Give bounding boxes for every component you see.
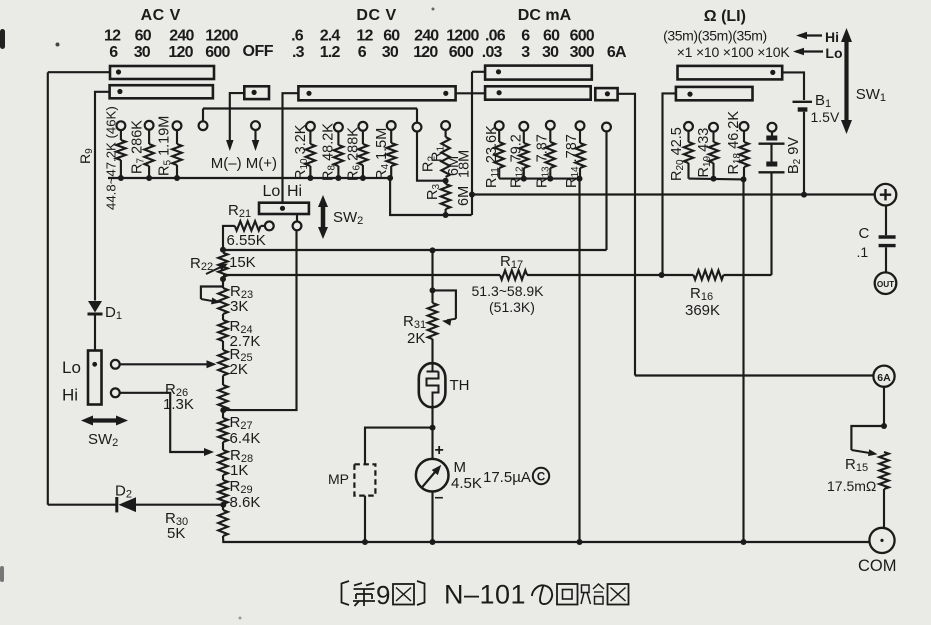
resistor R15 [879,452,888,528]
DC mA slider bar lower [485,86,591,99]
Lo-Hi slider box [88,351,102,405]
svg-text:15K: 15K [229,254,256,271]
DC V section title [356,7,396,24]
R15 trimmer tap [851,426,884,458]
resistor R7 [144,130,153,178]
R9 value 44.8-47.2K (46K) [104,106,119,210]
battery B2 link [770,144,772,162]
terminal OUT [875,272,897,294]
MP dashed box [354,464,375,495]
node R31 top [430,287,436,293]
svg-text:Lo: Lo [825,45,842,61]
R22 value [229,254,256,271]
wire DC V bar to SW2 slider [283,93,299,203]
svg-text:.3: .3 [292,44,305,61]
R15 designator [845,456,868,474]
svg-text:17.5µA: 17.5µA [483,469,531,486]
Lo label left slider [62,358,81,377]
node R18 common [741,539,747,545]
node B1 plus rail [801,192,807,198]
resistor R26 [218,385,227,410]
node R26 bottom [220,407,226,413]
R15 value [827,478,876,494]
svg-text:2.4: 2.4 [320,27,341,44]
resistor R6 [358,131,367,178]
mA contact 600 [576,121,585,130]
wire D2 to R29 node [136,504,223,506]
SW2 Hi contact stem [296,214,298,222]
node R1 bottom junction [443,178,449,184]
ohm contact x1 [684,122,693,131]
R24 value [230,333,261,350]
R20 label [669,127,686,181]
svg-text:3K: 3K [230,298,248,315]
svg-text:1.5V: 1.5V [811,109,840,125]
node R8 bottom [335,175,341,181]
wire R29 to R30 [222,504,224,510]
SW2 slider box [259,203,309,214]
wire R22 to R23 [222,277,224,288]
Hi label above SW2 box [287,183,302,200]
wire R25 to R26 [222,376,224,386]
D1 designator [105,304,122,322]
labels M(-) M(+) [211,155,277,172]
C designator [859,225,870,242]
resistor R13 [546,130,555,179]
wire R9 feed from AC lower bar [95,92,110,301]
SW2 lower double arrow [81,416,128,426]
wire DC mA upper bar feed [472,71,485,73]
R3 value 6M [456,186,472,206]
svg-text:3: 3 [521,44,530,61]
wire meter node to MP [365,428,433,465]
AC contact 1200V [199,121,208,130]
meter minus polarity [435,489,444,506]
svg-text:6: 6 [109,44,118,61]
R29 value [230,494,261,511]
resistor R16 [694,270,724,279]
ohm contact x100 [740,122,749,131]
node R14 bottom [577,176,583,182]
R18 label [726,111,743,175]
node R31 top feed [430,247,436,253]
ohm contact battery [768,123,777,132]
wire B1 to plus rail [803,112,805,195]
svg-text:51.3~58.9K: 51.3~58.9K [472,283,545,299]
wire capacitor to OUT [885,247,887,272]
svg-text:600: 600 [449,44,474,61]
mA contact .06 [495,121,504,130]
R22 designator [190,255,213,273]
svg-text:Lo: Lo [263,183,281,200]
wire R22 node to R17 [223,274,500,276]
node R19 bottom [711,176,717,182]
AC V slider bar upper [110,66,214,79]
node MP bottom [362,539,368,545]
battery B2 cell1 positive plate [759,142,785,144]
meter M body [416,459,449,492]
MP label [328,471,349,487]
wire shunt rail down to common [578,179,580,542]
svg-text:+: + [435,442,444,459]
R16 value [685,302,720,319]
svg-text:6A: 6A [607,44,627,61]
wire OFF box to M(-) [230,93,245,142]
resistor R10 [306,131,315,178]
diode D2 [117,497,136,512]
battery B2 cell2 positive plate [759,171,785,173]
svg-text:B2 9V: B2 9V [786,137,803,174]
wire meter to common rail [431,492,433,543]
wire R30 to common rail [223,536,365,542]
R14 label [564,134,581,188]
R31 trimmer tap [433,290,456,325]
R21 value [227,232,266,249]
svg-text:R19 433: R19 433 [696,128,713,178]
svg-text:6: 6 [358,44,367,61]
svg-text:DC mA: DC mA [518,7,572,24]
wire Hi contact to R26 node [223,230,296,410]
svg-text:60: 60 [383,27,400,44]
wire R18 node down to common [742,179,744,542]
svg-text:18M: 18M [457,150,473,178]
resistor R31 [428,290,437,339]
svg-text:R20 42.5: R20 42.5 [669,127,686,181]
R27 designator [230,414,253,432]
wire left border vertical [47,72,49,505]
wire to 6A terminal [635,374,874,376]
R6 label [346,127,363,181]
wire left border to D2 [48,504,117,506]
R16 designator [690,285,713,303]
AC contact 60V [145,121,154,130]
resistor R18 [739,131,748,180]
thermistor TH element [427,364,439,406]
svg-text:×1 ×10 ×100 ×10K: ×1 ×10 ×100 ×10K [677,44,791,60]
wire R24 to R25 [222,341,224,350]
terminal COM [869,528,894,553]
SW2 label lower [88,431,118,449]
Lo arrow label [793,45,843,61]
wire AC 1200V contact up to link [202,109,204,122]
R28 value [230,462,248,479]
svg-text:Ω (LI): Ω (LI) [704,8,746,25]
mA contact 6 [519,122,528,131]
OFF contact box [244,86,269,99]
R2 designator [421,156,438,172]
DC mA section title [518,7,572,24]
wire R31 to TH [431,339,433,363]
resistor R24 [218,320,227,341]
wire rail drop to R3 box [390,178,472,215]
wire R28 to R29 [222,475,224,480]
R12 label [509,134,526,188]
switch SW1 label [856,86,886,104]
Hi arrow label [796,29,839,45]
svg-text:17.5mΩ: 17.5mΩ [827,478,876,494]
R17 designator [500,253,523,271]
wire R27 to R28 [222,442,224,450]
svg-text:6.55K: 6.55K [227,232,266,249]
svg-text:R18 46.2K: R18 46.2K [726,111,743,175]
resistor R23 [218,288,227,314]
svg-text:OUT: OUT [877,280,894,289]
M(-) arrow head [226,140,234,151]
wire DC V bar to DC mA lower bar [456,92,486,94]
wire R23 to R24 [222,314,224,320]
resistor R12 [519,131,528,179]
R2 value 6M [446,156,462,176]
wire R17 to R16 [527,274,694,276]
R23 designator [230,283,253,301]
R10 label [293,124,310,180]
node ohm feed on R17 wire [659,272,665,278]
wire plus rail [472,193,875,195]
svg-text:12: 12 [356,27,373,44]
R25 designator [230,346,253,364]
svg-text:1200: 1200 [446,27,479,44]
svg-text:120: 120 [413,44,438,61]
resistor R1 and R2 series [441,130,449,177]
R7 label [130,120,147,174]
wire R31 feed [431,250,433,290]
OFF position label [243,43,274,60]
R5 label [157,116,174,176]
svg-text:R11 23.6K: R11 23.6K [484,125,501,188]
node plus rail start [469,192,475,198]
battery B2 cell2 negative plate [766,162,777,167]
svg-text:240: 240 [414,27,439,44]
resistor R8 [334,131,343,178]
R1 value 18M [457,150,473,178]
R17 value range [472,283,545,299]
svg-text:Hi: Hi [62,386,78,405]
wire B2 down to R16 [770,172,772,275]
B2 label 9V [786,137,803,174]
wire 6A box right and down [618,94,635,376]
svg-text:TH: TH [450,377,470,394]
COM label [858,557,897,575]
resistor R19 [709,132,718,179]
AC contact 240V [173,121,182,130]
ohm slider bar lower [676,87,753,100]
svg-text:30: 30 [382,44,399,61]
node R15 top [881,423,887,429]
R23 value [230,298,248,315]
svg-text:30: 30 [542,44,559,61]
node R4 bottom [387,175,393,181]
R24 designator [230,318,253,336]
DC contact .6V [306,122,315,131]
svg-text:4.5K: 4.5K [451,475,482,492]
svg-text:1.3K: 1.3K [163,396,194,413]
resistor R30 [218,510,227,536]
capacitor C plate bottom [879,244,896,247]
resistor R5 [172,130,181,178]
thermistor TH body [419,363,446,407]
svg-text:60: 60 [543,27,560,44]
node R12 bottom [521,176,527,182]
R31 value [407,330,425,347]
wire TH to meter node [431,407,433,427]
meter M pointer [422,462,445,487]
wire Hi contact to R28 tap [120,393,214,456]
svg-text:6: 6 [521,27,530,44]
AC V slider bar lower [110,85,213,98]
ohm slider bar upper [678,66,783,80]
R3 designator [425,184,442,200]
DC mA slider bar upper [485,66,592,80]
svg-text:Hi: Hi [287,183,302,200]
wire link down to 240V contact [416,109,418,123]
resistor R28 [218,450,227,475]
R29 designator [230,478,253,496]
node R10 bottom [307,175,313,181]
svg-text:120: 120 [168,44,193,61]
svg-text:M: M [454,459,467,476]
node R18 bottom [741,176,747,182]
svg-text:(51.3K): (51.3K) [489,299,535,315]
svg-text:R7 286K: R7 286K [130,120,147,174]
ohm contact x10 [709,123,718,132]
terminal 6A [873,366,894,387]
R1 designator [430,146,447,162]
DC contact 2.4V [334,123,343,132]
svg-text:1200: 1200 [205,27,238,44]
mA contact 6A open [602,123,611,132]
svg-text:(35m)(35m)(35m): (35m)(35m)(35m) [663,27,767,43]
DC contact 1200V [441,121,450,130]
svg-text:R6 288K: R6 288K [346,127,363,181]
M(+) arrow head [252,140,260,151]
resistor R14 [575,130,584,179]
wire R22 node to 6A contact [223,249,607,251]
caption: [Fig 9] N-101 circuit diagram [342,580,629,611]
SW2 Hi contact [293,222,302,231]
TH label [450,377,470,394]
svg-text:R10 3.2K: R10 3.2K [293,124,310,180]
node R9 bottom [118,175,124,181]
AC V section title [141,7,181,24]
svg-text:300: 300 [570,44,595,61]
svg-text:.06: .06 [485,27,506,44]
svg-text:DC V: DC V [356,7,396,24]
wire AC-DC link horizontal [203,107,417,109]
wire D1 to Lo-Hi slider [94,314,96,351]
wire Lo contact to R25 tap [120,360,217,368]
M rating 17.5uA [483,469,531,486]
M(+) stem [254,130,256,142]
AC/DC/mA range values row 1 [104,27,595,44]
svg-text:R4 1.5M: R4 1.5M [374,128,391,180]
resistor R29 [218,480,227,504]
mA shunt rail [499,178,579,180]
R9 designator [77,148,95,164]
M value 4.5K [451,475,482,492]
circled C mark [533,468,549,484]
node R5 bottom [174,175,180,181]
svg-text:6A: 6A [877,372,891,384]
R22 trimmer arrow [206,260,229,274]
resistor R3 [441,181,450,215]
R11 label [484,125,501,188]
R26 value [163,396,194,413]
node R22 top [220,247,226,253]
wire R21 to R22 node [222,226,225,250]
R27 value [230,430,261,447]
R4 label [374,128,391,180]
svg-text:600: 600 [205,44,230,61]
svg-text:MP: MP [328,471,349,487]
R23 trimmer tap [201,287,223,306]
svg-text:–: – [435,489,444,506]
ohm multiplier row 1 (35m)(35m)(35m) [663,27,767,43]
svg-text:240: 240 [169,27,194,44]
wire R16 to B2 [723,274,771,276]
node R7 bottom [146,175,152,181]
svg-text:.03: .03 [482,44,503,61]
svg-text:2K: 2K [407,330,425,347]
wire node to meter [431,428,433,459]
svg-text:1.2: 1.2 [320,44,341,61]
battery B1 positive plate [793,101,813,103]
svg-text:COM: COM [858,557,897,575]
wire 6A terminal to R15 [883,387,885,426]
node R29 bottom D2 junction [220,502,226,508]
node meter bottom [430,539,436,545]
resistor R4 [387,130,396,178]
node R22 bottom [220,276,226,282]
wire 6A contact down to R22 node wire [605,131,607,250]
DC contact 12V [359,122,368,131]
R28 designator [230,447,253,465]
node R6 bottom [360,175,366,181]
svg-text:M(–) M(+): M(–) M(+) [211,155,277,172]
node R13 bottom [547,176,553,182]
SW2 label upper [333,209,363,227]
svg-text:9: 9 [376,580,390,610]
wire ohm lower bar feed [663,93,676,275]
wire plus to capacitor [885,206,887,236]
resistor R20 [684,131,693,179]
wire 240V contact to R1 junction [417,131,446,180]
svg-text:12: 12 [104,27,121,44]
wire R26 to R27 [222,410,224,418]
svg-text:R8 48.2K: R8 48.2K [321,123,338,181]
svg-text:C: C [537,472,545,484]
ohm shunt rail [689,178,744,181]
B1 value [811,109,840,125]
M designator [454,459,467,476]
svg-text:OFF: OFF [243,43,274,60]
D2 designator [115,483,132,501]
C value .1 [857,244,869,260]
AC/DC/mA range values row 2 [109,44,627,61]
svg-text:C: C [859,225,870,242]
svg-text:30: 30 [134,44,151,61]
battery B1 negative plate [798,107,808,111]
svg-text:60: 60 [135,27,152,44]
M(+) contact [251,121,260,130]
resistor R22 [218,253,227,277]
svg-text:1K: 1K [230,462,248,479]
R8 label [321,123,338,181]
svg-text:.1: .1 [857,244,869,260]
wire vertical x472 to plus rail [471,72,473,215]
R13 label [535,134,552,188]
capacitor C plate top [879,235,896,238]
R21 designator [228,202,251,220]
